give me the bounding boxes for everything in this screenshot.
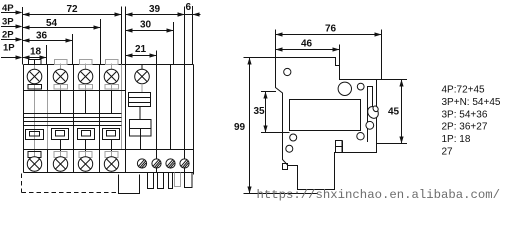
pole divider x=48 lower: [47, 150, 49, 173]
toggle stem pole2: [60, 140, 62, 152]
svg-text:72: 72: [67, 4, 79, 15]
bottom comb tooth 1: [148, 173, 154, 189]
pole1 top cap: [29, 60, 42, 65]
side view outline: [276, 58, 382, 190]
pole4 clamp plate: [105, 85, 119, 90]
gray centre line pole2 upper: [60, 64, 62, 91]
svg-text:3P: 3P: [2, 17, 14, 28]
bottom comb tooth 3: [169, 173, 173, 189]
svg-text:30: 30: [140, 20, 152, 31]
extension 76 left: [275, 30, 277, 58]
side circle right: [357, 133, 364, 140]
dimension 18: [23, 47, 47, 60]
bottom comb tooth 4: [185, 173, 193, 188]
lower body line: [24, 149, 194, 151]
extension 45 top: [382, 79, 408, 81]
RCD small terminal 2: [152, 159, 161, 168]
RCD internal line 3: [184, 65, 186, 173]
pole2 top screw: [53, 69, 68, 84]
dimension 6: [176, 2, 201, 17]
svg-text:https://shxinchao.en.alibaba.c: https://shxinchao.en.alibaba.com/: [257, 188, 501, 202]
extension 99 bottom: [244, 193, 319, 195]
pole2 clamp plate: [54, 85, 68, 90]
side window: [290, 100, 361, 131]
black centre segment pole3: [85, 91, 87, 114]
spec text block: [442, 85, 501, 158]
dimension 21: [126, 44, 157, 58]
pole1 bottom screw: [27, 157, 41, 171]
gray centre line pole1: [34, 64, 36, 173]
gray centre line pole4 upper: [111, 64, 113, 91]
extension 46 right: [339, 45, 341, 66]
RCD stem: [139, 107, 141, 120]
DIN rail dashed bottom: [22, 192, 120, 194]
side small circle: [357, 83, 364, 90]
toggle bar line2: [24, 117, 122, 119]
pole4 top screw: [104, 69, 119, 84]
dimension 54: [23, 18, 101, 30]
RCD small terminal 1: [137, 159, 146, 168]
extension line 21 end: [156, 51, 158, 65]
black centre segment pole4: [111, 91, 113, 114]
svg-text:2P: 36+27: 2P: 36+27: [442, 122, 488, 133]
pole2 bottom screw: [53, 157, 67, 171]
extension line 54 end: [100, 19, 102, 65]
watermark url: [257, 188, 501, 202]
pole1 bottom cap: [28, 152, 41, 158]
pole2 bottom cap: [54, 152, 67, 158]
module divider: [125, 65, 127, 173]
svg-text:3P+N: 54+45: 3P+N: 54+45: [442, 97, 501, 108]
svg-text:4P:72+45: 4P:72+45: [442, 85, 486, 96]
DIN spring rects: [336, 141, 343, 147]
bottom comb tooth 2: [158, 173, 164, 189]
gray centre line pole3 upper: [85, 64, 87, 91]
DIN rail dashed left: [21, 174, 23, 193]
pole2 top cap: [55, 60, 68, 65]
extension line module left: [125, 7, 127, 65]
DIN tab: [283, 164, 288, 170]
extension 99 top: [244, 57, 276, 59]
extension line left edge x=22.5: [22, 7, 24, 65]
svg-text:99: 99: [234, 122, 246, 133]
side circle left1: [290, 134, 297, 141]
terminal row line: [24, 90, 126, 92]
extension 35 bottom: [261, 132, 283, 134]
side handle: [366, 105, 381, 121]
pole4 bottom screw: [104, 157, 118, 171]
leader 3P: [1, 24, 23, 28]
leader 2P: [1, 37, 23, 41]
gray centre line pole3 lower: [85, 141, 87, 173]
breaker front view body top edge: [24, 64, 194, 66]
gray centre line pole4 lower: [111, 141, 113, 173]
pole4 top cap: [106, 60, 119, 65]
label 1P: [3, 43, 15, 54]
svg-text:76: 76: [325, 24, 337, 35]
toggle stem pole3: [85, 140, 87, 152]
RCD toggle: [130, 120, 152, 137]
bottom comb gray tooth: [175, 173, 181, 187]
DIN clip box: [119, 175, 140, 194]
pole divider x=48 gray part: [47, 91, 49, 150]
pole5 top screw: [135, 69, 150, 84]
RCD internal line 2: [170, 65, 172, 150]
label 2P: [2, 30, 14, 41]
dimension 35: [254, 92, 268, 133]
pole1 top screw: [27, 69, 42, 84]
extension 76 right: [381, 30, 383, 80]
dimension 30: [126, 20, 174, 33]
pole1 clamp plate: [28, 85, 42, 90]
toggle stem pole4: [111, 140, 113, 152]
gray extension 72 through body: [121, 65, 123, 150]
RCD small terminal 3: [166, 159, 175, 168]
svg-text:35: 35: [254, 106, 266, 117]
label 3P: [2, 17, 14, 28]
side big circle: [338, 82, 351, 95]
pole4 toggle: [103, 129, 120, 140]
pole5 stem: [141, 65, 143, 70]
pole4 bottom cap: [105, 152, 118, 158]
svg-text:3P: 54+36: 3P: 54+36: [442, 109, 488, 120]
pole divider x=74: [73, 65, 75, 173]
pole3 bottom cap: [79, 152, 92, 158]
black centre segment pole2: [60, 91, 62, 114]
svg-text:45: 45: [388, 107, 400, 118]
svg-text:36: 36: [36, 31, 48, 42]
svg-text:6: 6: [186, 2, 192, 13]
toggle bar line1: [24, 113, 122, 115]
extension line 36 end: [72, 34, 74, 65]
svg-text:39: 39: [149, 4, 161, 15]
RCD centre line: [141, 84, 143, 93]
dimension 72: [23, 4, 122, 17]
pole3 top screw: [78, 69, 93, 84]
svg-text:54: 54: [46, 18, 58, 29]
extension line right edge: [192, 6, 194, 65]
dimension 99: [234, 58, 252, 194]
leader 4P: [1, 10, 23, 14]
RCD toggle stem: [140, 136, 142, 150]
RCD internal line 1: [156, 65, 158, 173]
side circle top-left: [284, 68, 291, 75]
leader 1P: [1, 55, 23, 59]
extension 45 bottom: [377, 143, 408, 145]
RCD label window: [129, 93, 151, 107]
dimension 39: [126, 4, 185, 17]
front lip line: [283, 132, 290, 134]
toggle bar line3: [24, 121, 122, 123]
side recess line: [367, 112, 369, 142]
dimension 45: [388, 80, 404, 144]
svg-text:2P: 2P: [2, 30, 14, 41]
svg-text:27: 27: [442, 147, 454, 158]
svg-text:21: 21: [135, 44, 147, 55]
extension line 18 end: [46, 45, 48, 65]
RCD small terminal 4: [180, 159, 189, 168]
extension line 30 end: [173, 22, 175, 65]
pole3 toggle: [78, 129, 95, 140]
svg-text:1P: 1P: [3, 43, 15, 54]
pole divider x=100: [99, 65, 101, 173]
pole divider x=48 upper: [47, 65, 49, 91]
toggle bar line4: [24, 125, 122, 127]
dimension 46: [276, 39, 340, 52]
body bottom edge: [24, 172, 194, 174]
svg-text:1P: 18: 1P: 18: [442, 134, 471, 145]
pole3 bottom screw: [78, 157, 92, 171]
svg-text:18: 18: [30, 47, 42, 58]
pole3 clamp plate: [79, 85, 93, 90]
dimension 36: [23, 31, 73, 43]
extension 35 top: [261, 91, 276, 93]
svg-text:46: 46: [301, 39, 313, 50]
extension line 39 end: [184, 7, 186, 65]
dimension 76: [276, 24, 382, 37]
body left edge: [23, 65, 25, 173]
label 4P: [2, 3, 14, 14]
extension line 72 end: [121, 7, 123, 65]
RCD right edge: [193, 65, 195, 175]
gray centre line pole2 lower: [60, 141, 62, 173]
pole2 toggle: [52, 129, 69, 140]
pole3 top cap: [80, 60, 93, 65]
side slot: [368, 87, 373, 113]
side circle left2: [286, 145, 293, 152]
pole1 toggle: [26, 130, 44, 140]
